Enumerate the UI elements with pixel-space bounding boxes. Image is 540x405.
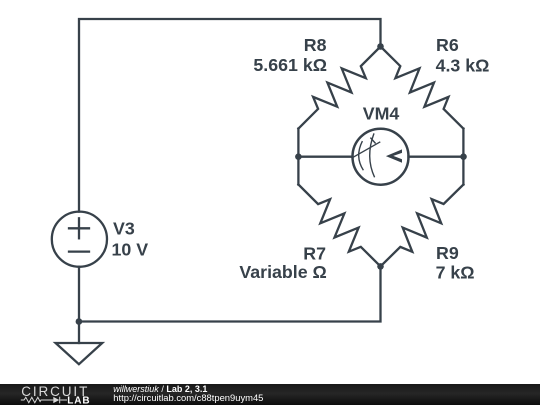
svg-text:Variable Ω: Variable Ω [239, 262, 326, 282]
svg-text:V3: V3 [113, 219, 135, 239]
svg-text:R9: R9 [436, 243, 459, 263]
svg-text:R6: R6 [436, 35, 459, 55]
svg-text:VM4: VM4 [363, 103, 400, 123]
svg-text:10 V: 10 V [112, 240, 149, 260]
svg-text:5.661 kΩ: 5.661 kΩ [253, 55, 327, 75]
svg-text:R7: R7 [303, 243, 326, 263]
svg-text:R8: R8 [304, 35, 327, 55]
svg-text:7 kΩ: 7 kΩ [436, 262, 475, 282]
svg-text:LAB: LAB [67, 395, 90, 405]
svg-text:http://circuitlab.com/c88tpen9: http://circuitlab.com/c88tpen9uym45 [113, 392, 263, 403]
svg-text:4.3 kΩ: 4.3 kΩ [436, 56, 490, 76]
